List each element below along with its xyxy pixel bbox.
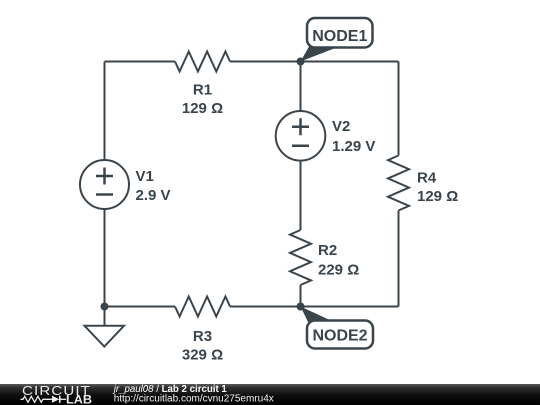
wire middle vertical mid	[300, 161, 302, 230]
svg-text:1.29 V: 1.29 V	[332, 138, 375, 155]
value 129 ohm	[417, 188, 458, 205]
junction dot ground	[101, 303, 109, 311]
value 229 ohm	[318, 262, 359, 279]
wire bottom-right horizontal	[230, 306, 399, 308]
label V1	[136, 168, 154, 185]
resistor R3	[175, 297, 230, 317]
CircuitLab logo resistor glyph	[21, 396, 52, 402]
svg-text:2.9 V: 2.9 V	[136, 187, 171, 204]
CircuitLab logo text CIRCUIT	[22, 383, 91, 398]
footer bar	[0, 384, 540, 405]
ground	[85, 307, 125, 347]
label R3	[193, 328, 212, 345]
svg-text:R2: R2	[318, 242, 337, 259]
wire right vertical upper	[398, 62, 400, 156]
footer title line	[112, 384, 228, 395]
footer url line	[114, 393, 274, 404]
resistor R2	[290, 230, 311, 285]
svg-text:V1: V1	[136, 168, 154, 185]
node NODE1 pointer	[301, 43, 335, 62]
wire middle vertical top	[300, 62, 302, 112]
wire left vertical lower	[104, 209, 106, 307]
svg-text:R1: R1	[193, 82, 212, 99]
svg-text:V2: V2	[332, 118, 350, 135]
svg-text:R4: R4	[417, 170, 437, 187]
resistor R4	[388, 156, 409, 211]
wire top-right horizontal	[230, 61, 399, 63]
node NODE2 pointer	[301, 307, 335, 325]
value 1.29 V	[332, 138, 375, 155]
wire middle vertical bottom	[300, 285, 302, 307]
svg-text:R3: R3	[193, 328, 212, 345]
node NODE2	[307, 321, 373, 349]
node NODE1	[307, 18, 373, 48]
value 2.9 V	[136, 187, 171, 204]
label R2	[318, 242, 337, 259]
voltage source V2	[276, 111, 326, 161]
label R4	[417, 170, 437, 187]
CircuitLab logo text LAB	[66, 394, 92, 405]
wire bottom-left horizontal	[105, 306, 176, 308]
resistor R1	[175, 52, 230, 72]
svg-text:NODE1: NODE1	[312, 28, 367, 45]
junction dot node2	[297, 303, 305, 311]
voltage source V1	[80, 160, 129, 209]
label V2	[332, 118, 350, 135]
svg-text:NODE2: NODE2	[312, 328, 367, 345]
wire top-left horizontal	[105, 61, 176, 63]
label R1	[193, 82, 212, 99]
wire left vertical upper	[104, 62, 106, 161]
svg-text:http://circuitlab.com/cvnu275e: http://circuitlab.com/cvnu275emru4x	[114, 393, 274, 404]
wire right vertical lower	[398, 211, 400, 307]
value 129 ohm	[182, 100, 223, 117]
svg-text:229 Ω: 229 Ω	[318, 262, 359, 279]
svg-text:LAB: LAB	[66, 394, 92, 405]
svg-text:129 Ω: 129 Ω	[417, 188, 458, 205]
junction dot node1	[297, 58, 305, 66]
CircuitLab logo diode glyph	[52, 396, 66, 403]
value 329 ohm	[182, 347, 223, 364]
svg-text:329 Ω: 329 Ω	[182, 347, 223, 364]
svg-text:129 Ω: 129 Ω	[182, 100, 223, 117]
